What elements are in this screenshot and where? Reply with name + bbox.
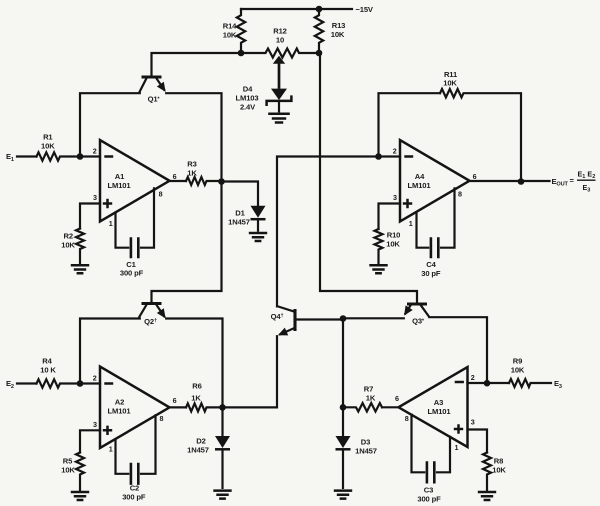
svg-text:10K: 10K [61,466,75,475]
svg-text:3: 3 [93,193,97,202]
svg-text:10K: 10K [443,79,457,88]
wire A3 output [382,406,399,408]
A4 plus sign [403,199,412,208]
transistor Q1 collector [139,79,146,93]
wire A4 pin1 lead [417,213,429,248]
wire bias line left of R12 [152,53,242,75]
svg-text:R3: R3 [187,160,196,169]
resistor R8 [483,453,491,491]
svg-text:6: 6 [173,396,177,405]
svg-text:2: 2 [93,373,97,382]
svg-text:300 pF: 300 pF [122,493,146,502]
svg-text:Q1*: Q1* [148,95,161,104]
capacitor C4 [431,239,438,258]
capacitor C2 [131,464,138,484]
svg-text:A2: A2 [115,398,124,407]
svg-text:10K: 10K [41,142,55,151]
wire -15V supply rail [241,8,352,10]
diode D3 arrow [336,436,351,448]
resistor R9 [509,379,551,387]
svg-text:6: 6 [473,172,477,181]
wire A2 output [170,406,187,408]
resistor R14 [237,9,245,53]
transistor Q2 emitter [157,305,165,316]
svg-text:10K: 10K [492,466,506,475]
svg-text:300 pF: 300 pF [417,494,441,503]
wire E2 input lead [17,382,37,384]
diode D2 cathode bar [215,448,230,451]
resistor R7 [343,403,382,411]
svg-text:C4: C4 [426,260,436,269]
wire A4 inverting input [379,155,401,157]
op-amp A1 body [100,140,170,222]
wire A1 pin3 lead [80,204,100,229]
svg-text:2: 2 [393,146,397,155]
svg-text:R13: R13 [332,21,345,30]
diode D2 arrow [215,436,230,448]
resistor R6 [186,403,223,411]
node A3 pin2 input [484,380,491,387]
resistor R5 [76,453,84,491]
ground below R5 [71,492,89,500]
wire D2 anode lead [221,407,223,436]
ground below R10 [369,265,387,273]
wire Q2 collector to A2 inverting input [80,319,140,384]
svg-text:A4: A4 [415,172,425,181]
svg-text:LM101: LM101 [108,181,132,190]
wire C1 to A1 pin8 [141,188,154,247]
transistor Q3 emitter [405,306,410,314]
op-amp A4 body [400,140,470,222]
transistor Q2 collector [139,305,146,317]
svg-text:300 pF: 300 pF [120,269,144,278]
svg-text:10: 10 [276,36,284,45]
wire C2 to A2 pin8 [141,415,156,474]
A2 plus sign [103,426,112,435]
resistor R10 [375,229,383,264]
wire Q4 collector up to A4 input line [277,157,379,307]
ground below D4 [268,114,290,123]
diode D3 cathode bar [336,448,351,451]
svg-text:1N457: 1N457 [187,446,209,455]
transistor Q3 collector [421,306,429,317]
R12 wiper arrow head [273,56,285,64]
wire Q1 emitter to R3/D1 node [166,93,221,181]
svg-text:8: 8 [159,190,163,199]
svg-text:10K: 10K [223,31,237,40]
diode D1 arrow [251,206,266,218]
svg-text:LM101: LM101 [408,181,432,190]
potentiometer R12 body [241,49,319,58]
wire D4 to ground [278,101,280,112]
wire C4 to A4 pin8 [441,188,455,247]
wire A1 pin1 lead [116,213,129,248]
svg-text:R8: R8 [494,457,503,466]
node -15V rail / R13 junction [316,6,323,13]
wire D3 to ground [342,449,344,489]
resistor R4 [37,379,101,387]
A3 plus sign [454,424,463,433]
svg-text:R10: R10 [387,231,400,240]
wire R6 node to Q4 emitter [223,336,278,407]
node R3 / D1 / Q1 emitter junction [218,178,225,185]
node A2 inverting input [77,380,84,387]
svg-text:1K: 1K [191,394,201,403]
A3 minus sign [455,381,464,384]
diode D1 cathode bar [251,218,266,221]
node R7 / D3 junction [340,404,347,411]
resistor R13 [315,9,323,53]
wire Q1 collector to A1 inverting input [80,93,140,156]
wire Q3 emitter to node [343,317,404,319]
wire A1 output [170,180,187,182]
node R12 right / R13 junction [316,50,323,57]
wire D1 to ground [257,219,259,232]
wire A4 pin3 lead [379,204,401,230]
svg-text:R4: R4 [42,357,52,366]
wire Q3 collector to A3 input [429,317,487,383]
node R6 / D2 / Q4 emitter junction [219,404,226,411]
svg-text:10K: 10K [511,366,525,375]
svg-text:30 pF: 30 pF [421,269,441,278]
svg-text:LM101: LM101 [428,407,452,416]
svg-text:2: 2 [93,146,97,155]
wire Q4 base to node [295,318,343,320]
svg-text:R1: R1 [43,133,53,142]
wire E1 input lead [17,155,37,157]
ground below D1 [249,233,267,241]
svg-text:D1: D1 [235,209,245,218]
wire A3 pin3 lead [468,430,488,453]
svg-text:Q3*: Q3* [412,317,425,326]
svg-text:1: 1 [109,445,113,454]
svg-text:−15V: −15V [356,5,374,14]
svg-text:10K: 10K [61,241,75,250]
svg-text:1N457: 1N457 [228,218,250,227]
resistor R11 [440,89,521,182]
transistor Q4 base bar [293,309,296,331]
zener D4 cathode bar [267,95,292,106]
ground below D3 [334,491,352,499]
transistor Q4 emitter [280,328,294,334]
transistor Q3 base bar [407,302,427,305]
wire A2 pin3 lead [80,430,100,452]
node A1 inverting input [77,153,84,160]
resistor R1 [37,152,101,160]
wire R3 node to D1 [222,182,259,206]
wire R12 wiper shaft [278,62,281,88]
wire A3 pin2 input [468,382,510,384]
wire A3 pin8 lead [412,415,425,473]
node A4 inverting input [375,153,382,160]
node Q4 base / Q3 emitter junction [340,315,347,322]
svg-text:8: 8 [405,414,409,423]
wire A4 output [470,180,550,182]
svg-text:A3: A3 [434,398,443,407]
wire R11 feedback left leg [379,93,441,156]
ground below R8 [478,492,496,500]
svg-text:8: 8 [160,414,164,423]
resistor R2 [76,229,84,265]
svg-text:1N457: 1N457 [355,446,377,455]
svg-text:R7: R7 [364,385,373,394]
transistor Q2 base bar [142,302,162,305]
svg-text:10K: 10K [386,240,400,249]
node R14 / bias line junction [238,50,245,57]
capacitor C3 [427,463,434,483]
svg-text:A1: A1 [115,172,125,181]
svg-text:3: 3 [93,420,97,429]
wire C3 to A3 pin1 [437,437,450,473]
svg-text:2: 2 [471,373,475,382]
A1 minus sign [104,155,113,158]
transistor Q1 base bar [142,75,162,78]
svg-text:1K: 1K [187,169,197,178]
transistor Q3 base lead to bias node [320,53,417,304]
resistor R3 [186,177,222,185]
A4 minus sign [404,155,413,158]
node A4 output [518,178,525,185]
svg-text:3: 3 [393,193,397,202]
svg-text:R2: R2 [63,232,72,241]
wire D2 to ground [221,449,223,489]
svg-text:=: = [570,176,575,185]
svg-text:D4: D4 [243,85,253,94]
svg-text:LM101: LM101 [108,407,132,416]
svg-text:1: 1 [409,219,413,228]
svg-text:10 K: 10 K [40,366,56,375]
wire A2 pin1 lead [116,439,129,474]
svg-text:C3: C3 [424,486,433,495]
A1 plus sign [103,199,112,208]
svg-text:6: 6 [395,394,399,403]
op-amp A3 body [399,367,468,447]
transistor Q4 collector [277,306,294,311]
wire Q4/Q3 node down to R7 node [342,319,344,408]
transistor Q1 emitter [157,79,165,90]
capacitor C1 [131,239,138,258]
svg-text:6: 6 [173,172,177,181]
svg-text:D2: D2 [196,437,205,446]
zener D4 arrow [271,89,287,100]
svg-text:1K: 1K [366,394,376,403]
svg-text:1: 1 [455,443,459,452]
svg-text:R14: R14 [223,22,237,31]
svg-text:R12: R12 [273,27,286,36]
ground below D2 [213,491,231,499]
svg-text:C2: C2 [130,483,139,492]
svg-text:8: 8 [458,190,462,199]
A2 minus sign [104,382,113,385]
ground below R2 [71,265,89,273]
svg-text:LM103: LM103 [236,94,259,103]
label EOUT equation [552,170,596,194]
op-amp A2 body [100,367,170,449]
svg-text:R6: R6 [192,382,201,391]
wire R3 node down to Q2 base [152,182,222,303]
svg-text:10K: 10K [331,30,345,39]
wire Q2 emitter to R6/D2 node [166,319,222,408]
svg-text:R9: R9 [513,357,522,366]
svg-text:D3: D3 [361,438,370,447]
svg-text:1: 1 [109,219,113,228]
svg-text:2.4V: 2.4V [240,103,256,112]
svg-text:R5: R5 [63,457,73,466]
svg-text:3: 3 [471,418,475,427]
wire D3 lead [342,407,344,436]
